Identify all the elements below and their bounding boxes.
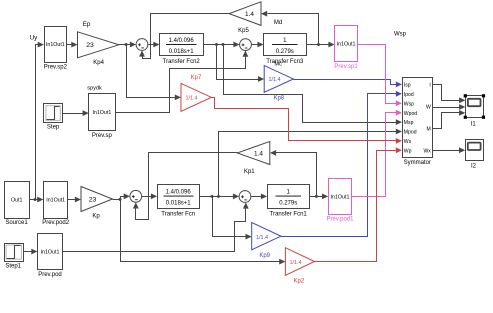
wire Symmator M to scope I1 <box>433 113 460 129</box>
svg-text:Kp1: Kp1 <box>244 169 255 175</box>
svg-text:Kp7: Kp7 <box>191 75 202 81</box>
wire J6 down to gain Kp9 <box>213 197 246 237</box>
svg-text:Prev.sp2: Prev.sp2 <box>44 65 68 71</box>
wire Transfer Fcn3 to Prev.sp1 <box>307 44 329 46</box>
wire sum S3 to Transfer Fcn1 <box>251 196 262 198</box>
svg-text:1/1.4: 1/1.4 <box>290 260 302 266</box>
svg-text:1.4: 1.4 <box>245 11 254 18</box>
svg-text:Msp: Msp <box>404 120 414 126</box>
wire Prev.sp1 output to Symmator Wsp (pink) <box>358 45 397 104</box>
wire Kp9 output to Symmator Ipod (blue) <box>281 94 397 237</box>
svg-text:I2: I2 <box>471 163 477 169</box>
svg-text:1/1.4: 1/1.4 <box>186 96 198 102</box>
gain Kp9 <box>252 223 281 250</box>
wire Prev.pod output to sum S3 minus <box>63 207 246 252</box>
svg-text:1.4: 1.4 <box>254 151 263 158</box>
svg-text:In1Out1: In1Out1 <box>41 250 60 256</box>
wire Symmator I to scope I1 <box>433 85 460 101</box>
wire Step to Prev.sp <box>63 113 84 115</box>
svg-text:Prev.pod2: Prev.pod2 <box>42 220 70 226</box>
wire Transfer Fcn to sum S3 <box>200 196 234 198</box>
wire Transfer Fcn2 to sum S4 <box>204 44 234 46</box>
wire J8 up to gain Kp1 input <box>276 153 317 197</box>
svg-text:spydk: spydk <box>87 86 102 92</box>
gain Kp1 <box>237 141 269 164</box>
svg-text:I1: I1 <box>471 121 477 127</box>
svg-text:0.018s+1: 0.018s+1 <box>166 200 192 206</box>
svg-text:In1Out1: In1Out1 <box>331 194 350 200</box>
node J4 on Transfer Fcn3 output <box>317 43 320 46</box>
scope I1 <box>466 96 484 118</box>
wire Symmator W to scope I1 <box>433 107 460 109</box>
svg-text:0.279s: 0.279s <box>279 200 297 206</box>
svg-text:Kp: Kp <box>92 214 100 220</box>
wire Source1 to Prev.pod2 <box>30 199 38 201</box>
sum S3 <box>239 191 251 203</box>
wire Kp8 output to Symmator Isp (blue) <box>294 80 397 85</box>
svg-text:Symmator: Symmator <box>404 160 431 166</box>
node J3 on Transfer Fcn2 output <box>222 43 225 46</box>
svg-text:In1Out1: In1Out1 <box>337 41 356 47</box>
svg-text:M: M <box>427 127 431 133</box>
svg-text:Step: Step <box>47 125 60 131</box>
node J8 on Transfer Fcn1 output <box>315 195 318 198</box>
svg-text:Mpod: Mpod <box>404 130 417 136</box>
gain Kp7 <box>181 83 211 111</box>
svg-text:Prev.sp: Prev.sp <box>92 133 113 139</box>
sum S4 Kp5 <box>240 39 252 51</box>
node J6 on Transfer Fcn output <box>211 195 214 198</box>
wire Uy riser from Source1 up to Prev.sp2 input <box>36 45 39 200</box>
svg-text:Ipod: Ipod <box>404 92 414 98</box>
block Prev.pod1 <box>329 179 352 215</box>
wire Transfer Fcn1 to Prev.pod1 <box>310 196 323 198</box>
node J-Uy junction on Source1 output <box>34 198 37 201</box>
wire Prev.sp2 to gain Kp4 <box>67 44 72 46</box>
svg-text:I: I <box>429 83 430 89</box>
svg-text:Ws: Ws <box>404 139 412 145</box>
node J7 on Transfer Fcn output <box>217 195 220 198</box>
node J5 on Kp output <box>119 198 122 201</box>
wire sum S2 to Transfer Fcn <box>142 196 152 198</box>
wire Kp7 output to Symmator Ws (red) <box>212 98 397 141</box>
subsystem Symmator <box>403 78 433 158</box>
svg-text:1/1.4: 1/1.4 <box>269 77 281 83</box>
svg-text:23: 23 <box>86 42 94 49</box>
gain Md <box>229 2 261 26</box>
block Transfer Fcn1 <box>268 185 310 209</box>
wire J4 up to gain Md input <box>268 14 319 45</box>
svg-text:Out1: Out1 <box>11 198 23 204</box>
svg-text:Ep: Ep <box>83 21 91 28</box>
wire J5 down to gain Kp2 <box>121 200 280 262</box>
svg-text:Wsp: Wsp <box>404 101 414 107</box>
wire J2 down to gain Kp8 <box>217 45 259 80</box>
wire Kp2 output to Symmator Wp (red) <box>315 151 397 262</box>
wire Md output to sum S1 minus <box>143 14 230 59</box>
svg-text:Kp2: Kp2 <box>294 279 305 285</box>
scope I2 <box>466 140 484 161</box>
wire sum S1 to Transfer Fcn2 <box>148 44 154 46</box>
wire J7 up to Symmator Mpod <box>219 132 397 197</box>
svg-text:Prev.sp1: Prev.sp1 <box>334 64 358 70</box>
block Prev.sp2 <box>45 27 67 63</box>
svg-text:Transfer Fcn1: Transfer Fcn1 <box>270 211 308 217</box>
svg-text:Uy: Uy <box>30 35 38 42</box>
svg-text:In1Out1: In1Out1 <box>46 42 65 48</box>
svg-text:Wpod: Wpod <box>404 111 417 117</box>
wire Symmator Wx to scope I2 <box>433 150 460 152</box>
svg-text:W: W <box>426 105 431 111</box>
sum S1 <box>136 39 148 51</box>
wire Prev.sp output to sum S4 minus <box>116 55 246 113</box>
wire sum S4 to Transfer Fcn3 <box>252 44 258 46</box>
svg-text:Transfer Fcn2: Transfer Fcn2 <box>163 59 201 65</box>
wire Kp to sum S2 with jog <box>113 197 125 200</box>
gain Kp2 <box>285 248 314 276</box>
svg-text:Wx: Wx <box>423 148 431 154</box>
block Transfer Fcn3 <box>264 34 307 56</box>
block Step1 <box>5 244 24 262</box>
block Prev.pod <box>38 234 63 270</box>
svg-text:Kp5: Kp5 <box>238 28 249 34</box>
sum S2 <box>130 190 142 202</box>
svg-text:Wsp: Wsp <box>394 31 407 37</box>
block Prev.sp1 <box>335 26 358 62</box>
svg-text:Step1: Step1 <box>5 264 21 270</box>
wire Prev.pod2 to gain Kp <box>68 199 76 201</box>
block Prev.pod2 <box>44 182 68 219</box>
block Transfer Fcn2 <box>160 34 204 56</box>
svg-text:Transfer Fcn: Transfer Fcn <box>161 211 195 217</box>
svg-text:23: 23 <box>89 197 97 204</box>
wire Prev.pod1 output to Symmator Wpod (pink) <box>352 113 397 197</box>
block Source1 <box>5 182 30 219</box>
wire Kp4 to sum S1 <box>119 44 131 46</box>
gain Kp <box>81 187 113 212</box>
svg-text:Mc: Mc <box>274 62 282 68</box>
node J1 on Kp4 output <box>125 43 128 46</box>
svg-text:Kp8: Kp8 <box>273 95 284 101</box>
svg-text:In1Out1: In1Out1 <box>46 198 65 204</box>
svg-text:Transfer Fcn3: Transfer Fcn3 <box>266 59 304 65</box>
wire Step1 to Prev.pod <box>24 251 32 253</box>
svg-text:0.279s: 0.279s <box>276 49 294 55</box>
wire J3 down and right to Symmator Msp <box>224 45 397 123</box>
svg-text:1.4/0.096: 1.4/0.096 <box>169 38 195 44</box>
block Step <box>44 104 63 123</box>
svg-text:1.4/0.096: 1.4/0.096 <box>166 189 192 195</box>
svg-text:1/1.4: 1/1.4 <box>256 235 268 241</box>
wire J1 down to gain Kp7 <box>127 45 176 98</box>
svg-text:Wp: Wp <box>404 148 412 154</box>
wire Kp1 output to sum S2 minus <box>136 153 238 220</box>
block Prev.sp <box>89 94 116 131</box>
gain Kp4 <box>78 32 119 58</box>
node J2 on Transfer Fcn2 output <box>215 43 218 46</box>
gain Kp8 <box>264 66 293 93</box>
svg-text:Kp4: Kp4 <box>93 60 104 66</box>
svg-text:Prev.pod1: Prev.pod1 <box>327 217 355 223</box>
svg-text:Md: Md <box>274 20 282 26</box>
block Transfer Fcn <box>158 185 200 209</box>
svg-text:0.018s+1: 0.018s+1 <box>169 49 195 55</box>
svg-text:Prev.pod: Prev.pod <box>38 272 62 278</box>
svg-text:In1Out1: In1Out1 <box>92 110 111 116</box>
svg-text:Source1: Source1 <box>5 220 28 226</box>
svg-text:Isp: Isp <box>404 83 411 89</box>
svg-text:Kp9: Kp9 <box>259 253 270 259</box>
